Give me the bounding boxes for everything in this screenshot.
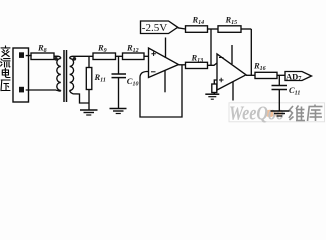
resistor R16 — [255, 72, 277, 78]
op-amp U1 — [149, 48, 179, 78]
resistor R8 — [31, 53, 54, 60]
U1 plus marker — [151, 52, 156, 56]
svg-text:R15: R15 — [225, 15, 238, 27]
resistor R15 — [218, 26, 241, 33]
U2 minus marker — [219, 57, 224, 59]
U2 supply stub — [231, 45, 233, 64]
terminal top — [19, 52, 24, 58]
wire R12 to op-amp U1 — [144, 55, 149, 57]
watermark 库 — [308, 105, 323, 122]
primary bottom hook — [56, 89, 61, 92]
wire R9 to R12 — [116, 55, 123, 57]
ground under C11 — [271, 110, 290, 112]
svg-text:R12: R12 — [126, 43, 139, 55]
ground under R11 — [80, 109, 98, 111]
char 压 — [1, 80, 10, 91]
char 流 — [1, 59, 10, 67]
U1 output wire — [179, 64, 186, 66]
resistor R11 vertical — [88, 56, 90, 67]
terminal bottom — [19, 87, 24, 93]
Chinese text 交流电压 (drawn strokes) — [1, 46, 10, 91]
-2.5V tag — [141, 21, 178, 34]
AD7 tag — [285, 72, 312, 81]
C11 bottom lead — [278, 90, 280, 111]
resistor R13 — [186, 62, 208, 68]
ground under C10 — [110, 108, 127, 110]
svg-text:C11: C11 — [289, 85, 300, 97]
U2 plus input ground branch — [214, 80, 217, 84]
svg-text:R11: R11 — [94, 72, 106, 84]
svg-text:-2.5V: -2.5V — [142, 22, 168, 34]
watermark box — [229, 103, 325, 122]
primary winding — [57, 58, 61, 90]
wire top from source — [26, 55, 31, 58]
resistor R12 — [123, 53, 145, 60]
char 交 — [1, 46, 10, 57]
primary top hook — [54, 56, 61, 58]
secondary top hook — [70, 56, 93, 58]
watermark orange dot — [265, 110, 275, 117]
secondary bottom wire — [70, 90, 89, 103]
watermark 维 — [289, 106, 305, 122]
R11 bottom lead — [88, 90, 90, 110]
wire R13 to U2 — [208, 63, 218, 65]
U1 dangling stub — [164, 70, 166, 92]
U1 supply stub — [165, 38, 167, 59]
U2 output wire — [246, 74, 255, 76]
resistor R9 — [93, 53, 116, 60]
ground under U2 — [205, 93, 219, 95]
capacitor C11 — [278, 75, 280, 85]
capacitor C10 — [118, 56, 120, 74]
core line right — [66, 50, 68, 102]
secondary winding — [70, 58, 74, 90]
AC source box 交流电压 — [13, 48, 29, 102]
feedback drop to U2 output — [250, 29, 252, 75]
svg-text:R13: R13 — [191, 53, 204, 65]
tag wire — [178, 28, 186, 29]
wire R15 to feedback drop — [241, 28, 251, 30]
small box at U2 plus input — [212, 84, 217, 93]
resistor R14 — [186, 26, 208, 33]
U1 minus marker — [151, 71, 156, 73]
char 电 — [2, 68, 10, 77]
primary dot — [54, 57, 58, 61]
svg-text:R8: R8 — [37, 43, 47, 55]
core line left — [63, 50, 65, 102]
svg-text:C10: C10 — [127, 76, 139, 88]
wire R14 junction R15 — [208, 28, 219, 30]
junction drop to U2 inverting input — [210, 29, 212, 65]
secondary dot — [73, 57, 77, 61]
U1 feedback loop — [140, 65, 182, 117]
wire R16 to AD node — [277, 74, 285, 76]
op-amp U2 — [217, 54, 246, 90]
U2 plus marker — [219, 78, 224, 82]
wire R8 to transformer — [54, 55, 59, 57]
U2 dangling stub below — [232, 82, 234, 101]
svg-text:R14: R14 — [192, 15, 205, 27]
svg-text:AD7: AD7 — [286, 71, 302, 82]
svg-text:R16: R16 — [253, 61, 266, 73]
C10 bottom lead — [118, 78, 120, 109]
svg-text:R9: R9 — [97, 43, 107, 55]
wire bottom from source — [26, 89, 56, 91]
